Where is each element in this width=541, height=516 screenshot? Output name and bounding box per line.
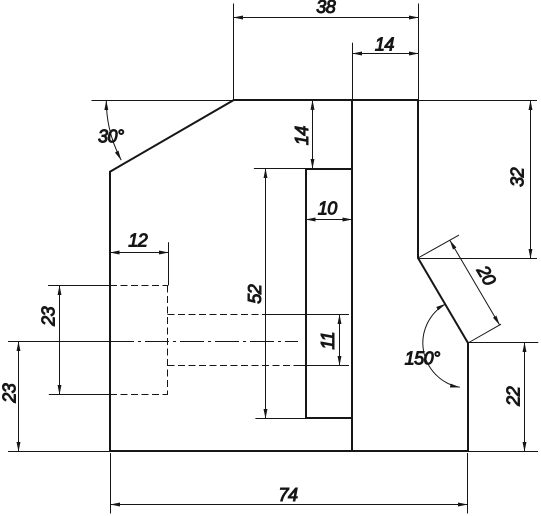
svg-text:11: 11 bbox=[318, 332, 338, 350]
extension line 52 top bbox=[254, 168, 306, 170]
svg-text:23: 23 bbox=[38, 306, 58, 327]
extension line 23 lower top bbox=[8, 341, 110, 343]
extension line 12 right bbox=[168, 242, 170, 285]
dimension line 23 upper bbox=[59, 286, 61, 395]
dimension line 52 bbox=[265, 169, 267, 419]
extension line 11 bottom bbox=[297, 365, 349, 367]
extension line 23 upper bottom bbox=[49, 394, 110, 396]
dimension line 14 top bbox=[353, 53, 419, 55]
dimension line 14 mid bbox=[312, 100, 314, 168]
dimension line 20 bbox=[450, 240, 500, 325]
slot outline bbox=[306, 169, 352, 418]
extension line 11 top bbox=[262, 314, 349, 316]
centerline bbox=[110, 341, 298, 343]
hidden recess right edge bbox=[167, 286, 169, 395]
dimension line 11 bbox=[339, 315, 341, 366]
dimension line 12 bbox=[110, 252, 169, 254]
dimension line 32 bbox=[530, 101, 532, 259]
svg-text:12: 12 bbox=[128, 230, 148, 250]
extension line 22 bottom bbox=[468, 451, 538, 453]
dimension line 22 bbox=[524, 343, 526, 452]
dimension line 38 bbox=[234, 17, 419, 19]
inner step edge bbox=[351, 100, 353, 451]
extension line 38/14 right bbox=[418, 4, 420, 101]
extension line 32 bottom bbox=[418, 258, 537, 260]
svg-text:10: 10 bbox=[318, 199, 338, 219]
svg-text:150°: 150° bbox=[405, 349, 441, 369]
svg-text:30°: 30° bbox=[98, 126, 124, 146]
svg-text:14: 14 bbox=[292, 126, 312, 146]
dimension line 10 bbox=[306, 219, 352, 221]
extension line top edge left bbox=[92, 100, 234, 102]
extension line 52 bottom bbox=[255, 418, 306, 420]
extension line 20 upper bbox=[418, 235, 459, 258]
svg-text:74: 74 bbox=[278, 485, 298, 505]
extension line 20 lower bbox=[468, 324, 501, 343]
extension line 22 top bbox=[468, 342, 538, 344]
part outline bbox=[110, 100, 468, 451]
hidden recess bottom edge bbox=[110, 394, 168, 396]
extension line 74 left bbox=[110, 453, 112, 514]
svg-text:52: 52 bbox=[245, 284, 265, 304]
hidden slot top edge bbox=[168, 314, 263, 316]
svg-text:22: 22 bbox=[503, 386, 523, 407]
extension line 23 upper top bbox=[48, 285, 110, 287]
extension line 38 left bbox=[233, 4, 235, 101]
svg-text:14: 14 bbox=[375, 35, 395, 55]
hidden recess top edge bbox=[110, 285, 168, 287]
extension line 14 top bbox=[352, 43, 354, 100]
extension line 74 right bbox=[467, 453, 469, 514]
extension line 23 lower bottom bbox=[8, 451, 109, 453]
hidden slot bottom edge bbox=[168, 365, 298, 367]
svg-text:38: 38 bbox=[316, 0, 336, 17]
svg-text:32: 32 bbox=[507, 167, 527, 187]
extension line top edge right bbox=[418, 100, 537, 102]
angle arc 30 bbox=[106, 101, 121, 161]
svg-text:23: 23 bbox=[0, 383, 20, 404]
dimension line 74 bbox=[111, 504, 468, 506]
angle arc 150 bbox=[423, 304, 460, 387]
dimension line 23 lower bbox=[18, 342, 20, 452]
